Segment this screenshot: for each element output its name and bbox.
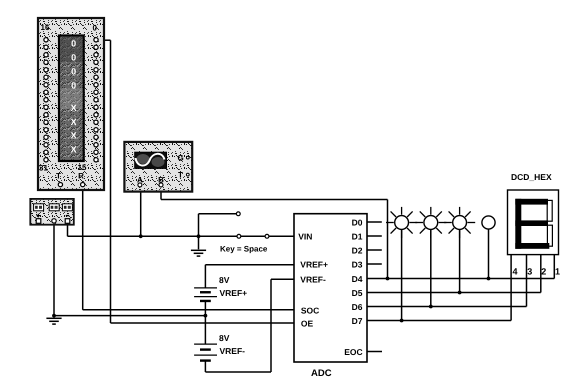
svg-text:0: 0 <box>71 52 76 62</box>
svg-text:D3: D3 <box>352 259 363 269</box>
svg-text:2: 2 <box>541 266 546 276</box>
svg-text:8V: 8V <box>219 333 230 343</box>
svg-text:DCD_HEX: DCD_HEX <box>511 172 552 182</box>
svg-text:D6: D6 <box>352 302 363 312</box>
svg-text:0: 0 <box>71 38 76 48</box>
svg-text:T: T <box>56 171 61 180</box>
svg-text:0: 0 <box>71 81 76 91</box>
svg-text:VIN: VIN <box>298 232 312 242</box>
svg-text:X: X <box>71 131 77 141</box>
svg-text:VREF+: VREF+ <box>220 288 248 298</box>
svg-text:G: G <box>178 154 184 163</box>
svg-text:T: T <box>178 171 183 180</box>
svg-text:D5: D5 <box>352 288 363 298</box>
svg-text:D2: D2 <box>352 245 363 255</box>
svg-text:D1: D1 <box>352 231 363 241</box>
svg-text:X: X <box>71 144 77 154</box>
svg-text:R: R <box>78 171 84 180</box>
svg-text:1: 1 <box>555 266 560 276</box>
svg-text:SOC: SOC <box>301 305 319 315</box>
svg-text:X: X <box>71 103 77 113</box>
svg-text:D7: D7 <box>352 316 363 326</box>
svg-text:0: 0 <box>71 66 76 76</box>
svg-text:16: 16 <box>41 23 50 32</box>
svg-text:EOC: EOC <box>344 347 362 357</box>
svg-text:OE: OE <box>301 318 314 328</box>
svg-text:VREF+: VREF+ <box>300 260 328 270</box>
svg-text:ADC: ADC <box>311 368 332 379</box>
svg-text:8V: 8V <box>219 275 230 285</box>
svg-text:31: 31 <box>39 164 48 173</box>
svg-text:Key = Space: Key = Space <box>220 244 268 253</box>
svg-text:0: 0 <box>93 24 98 33</box>
svg-text:VREF-: VREF- <box>220 346 246 356</box>
svg-text:VREF-: VREF- <box>300 274 326 284</box>
svg-text:4: 4 <box>513 266 518 276</box>
svg-text:D4: D4 <box>352 274 363 284</box>
svg-text:X: X <box>71 117 77 127</box>
svg-text:3: 3 <box>527 266 532 276</box>
svg-text:D0: D0 <box>352 217 363 227</box>
